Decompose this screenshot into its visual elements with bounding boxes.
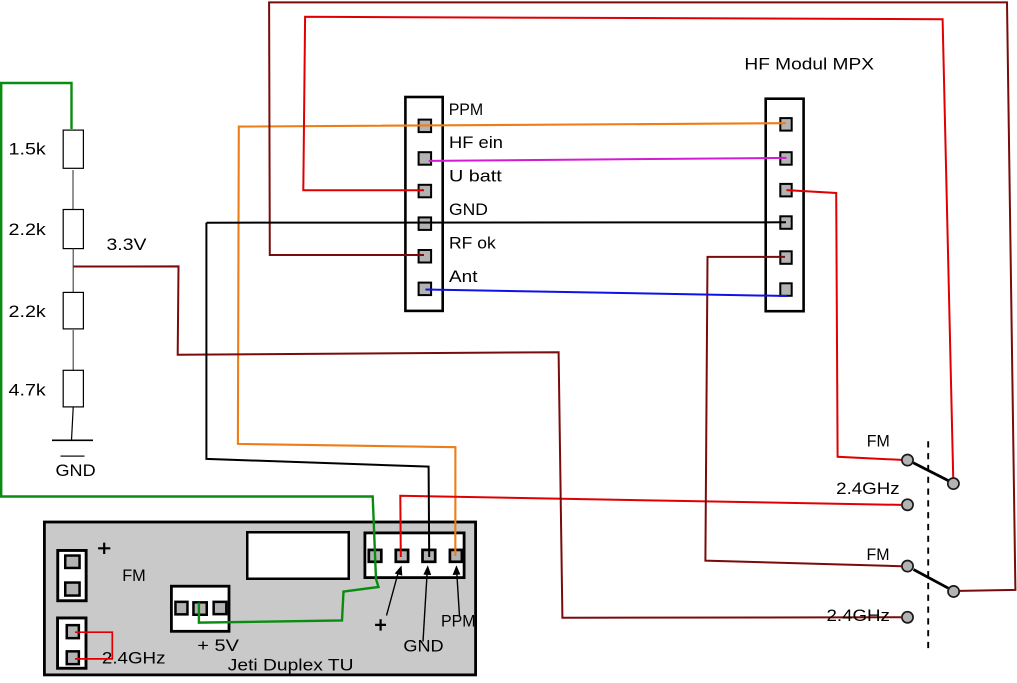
wire R3-R4 bbox=[72, 330, 74, 370]
switch 1 lever bbox=[913, 463, 949, 481]
wire red U batt (J1 pin3 to switch1 throw) bbox=[303, 17, 953, 477]
FM connector pin 2 bbox=[65, 583, 79, 596]
arrow PPM to pin4 bbox=[457, 572, 460, 617]
switch 1 contact 2.4GHz bbox=[902, 499, 913, 510]
ground overline bbox=[61, 455, 85, 457]
FM connector pin 1 bbox=[65, 556, 79, 568]
wire jumper red 2.4GHz bbox=[75, 632, 112, 659]
resistor R1 1.5k bbox=[63, 130, 83, 168]
wire R1-R2 bbox=[72, 170, 74, 209]
connector J2 (HF Modul MPX) body bbox=[766, 99, 804, 312]
wire dark-red RF ok loop (J1 pin5 top right to switch2 throw) bbox=[269, 2, 1015, 591]
svg-text:FM: FM bbox=[867, 432, 890, 451]
wire blue Ant bbox=[426, 290, 788, 297]
svg-text:4.7k: 4.7k bbox=[9, 381, 47, 400]
4-pin connector pin 3 bbox=[423, 550, 436, 562]
connector J1 (transmitter side) body bbox=[405, 97, 442, 311]
wire dark-red J2 pin5 to switch2 pole bbox=[705, 257, 901, 566]
J2 pin 3 bbox=[780, 184, 791, 197]
svg-text:2.4GHz: 2.4GHz bbox=[827, 606, 890, 625]
switch 1 throw bbox=[948, 478, 959, 489]
resistor R3 2.2k bbox=[63, 292, 83, 329]
4-pin connector pin 1 bbox=[369, 550, 382, 562]
svg-text:3.3V: 3.3V bbox=[107, 235, 148, 254]
arrow GND to pin3 bbox=[423, 572, 427, 642]
label + (FM) bbox=[98, 543, 110, 554]
switch 2 lever bbox=[914, 570, 949, 589]
resistor R2 2.2k bbox=[63, 210, 83, 249]
resistor R4 4.7k bbox=[63, 370, 83, 407]
svg-text:Ant: Ant bbox=[449, 267, 478, 286]
svg-text:2.2k: 2.2k bbox=[9, 302, 47, 321]
4-pin connector pin 4 bbox=[450, 550, 462, 562]
Jeti Duplex TU board body bbox=[44, 522, 475, 675]
switch 2 throw bbox=[948, 586, 959, 597]
J1 pin 2 (HF ein) bbox=[419, 152, 432, 165]
wire black GND bus (J1 to J2) bbox=[206, 221, 786, 223]
wire orange PPM (4-pin pin4 to J1 pin1 to J2 pin1) bbox=[238, 123, 786, 556]
J1 pin 5 (RF ok) bbox=[419, 250, 432, 263]
svg-text:PPM: PPM bbox=[441, 612, 476, 631]
J2 pin 2 bbox=[780, 152, 791, 165]
svg-text:HF Modul MPX: HF Modul MPX bbox=[744, 54, 874, 73]
svg-text:HF ein: HF ein bbox=[449, 133, 503, 152]
wire R4-GND bbox=[72, 408, 74, 441]
svg-text:Jeti Duplex TU: Jeti Duplex TU bbox=[228, 655, 354, 674]
wire R2-R3 (3.3V node) bbox=[72, 249, 74, 293]
J1 pin 6 (Ant) bbox=[419, 283, 432, 296]
2.4GHz connector pin 1 bbox=[67, 625, 79, 638]
svg-text:2.4GHz: 2.4GHz bbox=[102, 648, 166, 667]
5V connector pin 3 bbox=[214, 602, 227, 614]
wire green supply loop (ladder top to 4-pin pin1 and 5V pin2) bbox=[1, 83, 378, 623]
switch 1 contact FM bbox=[902, 455, 913, 466]
module rectangle (blank) bbox=[247, 532, 349, 579]
switch 2 contact 2.4GHz bbox=[902, 612, 913, 623]
svg-text:GND: GND bbox=[449, 200, 488, 219]
J2 pin 4 bbox=[780, 216, 791, 229]
svg-text:2.2k: 2.2k bbox=[9, 220, 47, 239]
wire red 4-pin pin2 to 2.4GHz contact bbox=[400, 496, 901, 557]
J2 pin 6 bbox=[780, 283, 791, 296]
dashed separator line bbox=[927, 441, 929, 651]
arrow + to pin2 bbox=[387, 572, 399, 616]
wire black GND drop to 4-pin pin3 bbox=[206, 223, 429, 557]
label + (4-pin) bbox=[375, 619, 386, 630]
wire red J2 pin3 to switch1 pole bbox=[787, 190, 902, 460]
wire magenta HF ein bbox=[429, 158, 787, 161]
svg-text:U batt: U batt bbox=[449, 167, 502, 186]
svg-text:+ 5V: + 5V bbox=[197, 636, 239, 655]
J1 pin 4 (GND) bbox=[419, 217, 432, 230]
5V connector pin 2 bbox=[193, 602, 206, 614]
ground bar bbox=[52, 439, 93, 441]
J1 pin 3 (U batt) bbox=[419, 185, 432, 198]
2.4GHz connector body bbox=[58, 618, 86, 668]
svg-text:RF ok: RF ok bbox=[449, 233, 496, 252]
FM connector body bbox=[58, 550, 86, 600]
svg-text:GND: GND bbox=[56, 461, 96, 480]
J1 pin 1 (PPM) bbox=[419, 120, 432, 133]
switch 2 contact FM bbox=[902, 561, 913, 572]
svg-text:2.4GHz: 2.4GHz bbox=[836, 479, 899, 498]
5V connector pin 1 bbox=[175, 602, 187, 615]
4-pin connector body bbox=[365, 533, 464, 578]
svg-text:FM: FM bbox=[122, 566, 146, 585]
5V connector body bbox=[171, 586, 229, 631]
wire dark-red 3.3V (ladder node to 2.4GHz contact 2) bbox=[74, 266, 902, 617]
svg-text:1.5k: 1.5k bbox=[9, 139, 47, 158]
svg-text:PPM: PPM bbox=[449, 100, 484, 119]
J2 pin 5 bbox=[780, 251, 791, 263]
4-pin connector pin 2 bbox=[396, 550, 408, 562]
svg-text:FM: FM bbox=[867, 545, 890, 564]
2.4GHz connector pin 2 bbox=[67, 651, 79, 664]
J2 pin 1 bbox=[780, 118, 791, 131]
